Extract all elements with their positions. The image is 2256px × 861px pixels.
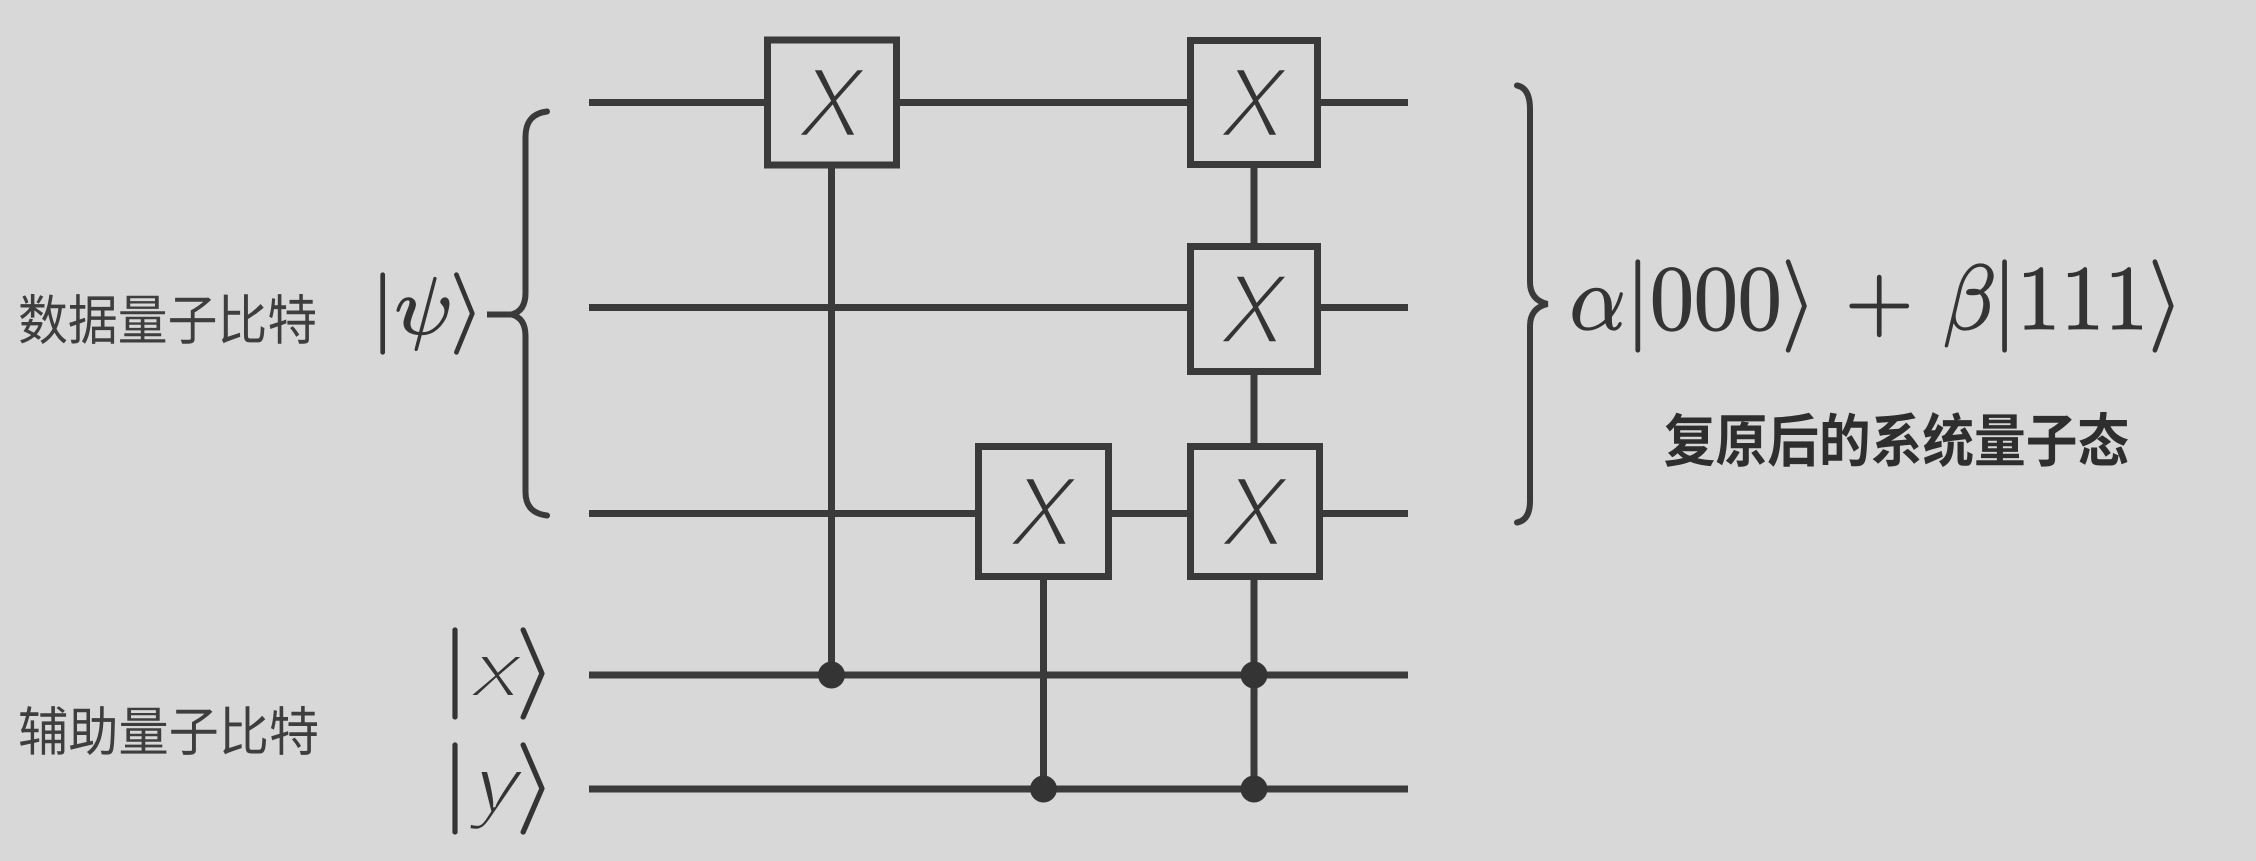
control dot on y wire, column 2 <box>1030 776 1057 803</box>
wire x (ancilla |x>) <box>589 672 1408 679</box>
wire control X3-X5 <box>1251 373 1258 445</box>
brace right (output state) <box>1517 86 1548 523</box>
wire control X4-to-y <box>1040 578 1047 789</box>
wire q3 (bottom data qubit) <box>589 510 1408 517</box>
wire q1 (top data qubit) <box>589 99 1408 106</box>
control dot on y wire, column 3 <box>1241 776 1268 803</box>
wire control X2-X3 <box>1251 166 1258 245</box>
wire q2 (middle data qubit) <box>589 304 1408 311</box>
wire psi-to-brace tick <box>487 312 512 318</box>
gate X3 (CNOT target, qubit 2, column 3) <box>1191 247 1318 372</box>
node |y> ancilla label <box>453 743 544 834</box>
node |x> ancilla label <box>453 628 544 719</box>
caption: restored system quantum state <box>1665 412 2128 467</box>
wire control X5-to-y <box>1251 578 1258 789</box>
gate X4 (CNOT target, qubit 3, control y, column 2) <box>979 447 1109 577</box>
gate X2 (CNOT target, qubit 1, column 3) <box>1191 41 1318 165</box>
node |psi> input label <box>381 273 474 354</box>
gate X1 (CNOT target, qubit 1, control x) <box>768 40 897 165</box>
value label alpha|000> + beta|111> output state <box>1573 260 2173 352</box>
gate X5 (CNOT target, qubit 3, column 3) <box>1191 447 1320 577</box>
brace left (groups 3 data qubits) <box>512 112 548 516</box>
label: data qubits (shu ju liang zi bi te) <box>20 294 315 344</box>
control dot on x wire, column 3 <box>1241 662 1268 689</box>
label: auxiliary qubits (fu zhu liang zi bi te) <box>20 706 317 755</box>
wire control X1-to-x <box>828 168 835 675</box>
control dot on x wire, column 1 <box>818 662 845 689</box>
wire y (ancilla |y>) <box>589 786 1408 793</box>
